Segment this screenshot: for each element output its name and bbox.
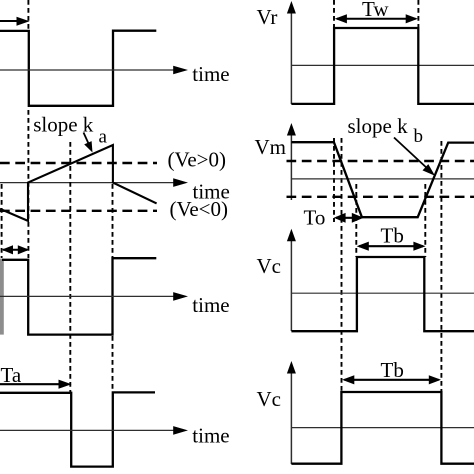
plot R4: Vc delayed pulse bbox=[257, 358, 474, 464]
dashed vertical x=425.3 bbox=[424, 184, 426, 257]
plot R3: Vc comparator pulse bbox=[257, 224, 474, 332]
plot L3: comparator output square wave bbox=[0, 245, 230, 334]
svg-text:b: b bbox=[414, 126, 424, 147]
arrow (period marker) at top of L1 bbox=[0, 20, 17, 23]
svg-text:slope k: slope k bbox=[33, 113, 94, 137]
dashed lower threshold R2 bbox=[287, 196, 474, 198]
svg-text:time: time bbox=[192, 62, 229, 86]
plot L4: delayed output square wave bbox=[0, 363, 230, 467]
axis R3 bbox=[291, 292, 474, 294]
dashed vertical x=112.5 bbox=[112, 184, 114, 392]
double arrow Tb R3 bbox=[359, 245, 423, 247]
trace R1 bbox=[291, 28, 474, 104]
dashed vertical x=334 (Tw left) bbox=[333, 0, 335, 27]
dashed vertical x=341.5 bbox=[341, 138, 343, 392]
dashed vertical x=418.4 (Tw right) bbox=[417, 0, 419, 27]
trace R2 bbox=[291, 142, 474, 217]
svg-text:time: time bbox=[192, 424, 229, 448]
dashed threshold (Ve<0) bbox=[0, 210, 157, 212]
axis L4 bbox=[0, 429, 176, 431]
svg-text:time: time bbox=[192, 293, 229, 317]
vertical axis R2 bbox=[290, 130, 292, 200]
dashed vertical x=334 in R2 bbox=[333, 138, 335, 222]
svg-text:Tb: Tb bbox=[381, 358, 404, 382]
svg-text:a: a bbox=[99, 126, 108, 147]
svg-text:Tb: Tb bbox=[381, 224, 404, 248]
trace L1 bbox=[0, 31, 156, 106]
grey edge bar (cut rising edge) bbox=[0, 259, 4, 335]
axis R2 bbox=[291, 178, 474, 180]
double arrow To-left between x=1.5 and x=28 bbox=[3, 249, 27, 251]
trace L4 bbox=[0, 392, 155, 466]
axis R4 bbox=[291, 427, 474, 429]
trace L3 bbox=[2, 258, 156, 334]
svg-text:Vr: Vr bbox=[257, 5, 278, 29]
vertical axis R3 bbox=[290, 236, 292, 331]
dashed vertical x=28.4 above L1 wave bbox=[27, 0, 29, 29]
svg-text:To: To bbox=[304, 206, 326, 230]
dashed vertical x=1.6 (left cut) bbox=[1, 184, 3, 258]
trace R3 bbox=[291, 257, 474, 331]
svg-text:Vm: Vm bbox=[255, 135, 287, 159]
axis L2 bbox=[0, 182, 176, 184]
dashed vertical x=70.3 bbox=[69, 142, 71, 393]
arrow Ta bbox=[0, 383, 60, 385]
double arrow To bbox=[336, 217, 361, 219]
annotation arrow slope-k left bbox=[84, 133, 89, 144]
svg-text:slope k: slope k bbox=[348, 114, 409, 138]
dashed upper threshold R2 bbox=[287, 160, 474, 162]
plot L1: input square wave bbox=[0, 0, 230, 106]
dashed vertical x=441.4 bbox=[440, 141, 442, 392]
dashed vertical x=356.3 bbox=[355, 184, 357, 257]
axis R1 bbox=[291, 64, 474, 66]
plot R2: Vm modulated trapezoid wave bbox=[255, 114, 474, 392]
dashed vertical x=28.4 mid bbox=[27, 110, 29, 258]
trace L2 ramp bbox=[0, 145, 157, 221]
axis L1 bbox=[0, 69, 176, 71]
annotation arrow slope-k right bbox=[394, 138, 429, 170]
svg-text:(Ve<0): (Ve<0) bbox=[170, 197, 229, 221]
axis L3 bbox=[0, 295, 176, 297]
vertical axis R1 bbox=[290, 8, 292, 104]
double arrow Tb R4 bbox=[345, 379, 439, 381]
plot R1: Vr reference square wave bbox=[257, 0, 474, 104]
svg-text:Vc: Vc bbox=[257, 254, 282, 278]
plot L2: error ramp bbox=[0, 110, 230, 393]
svg-text:Vc: Vc bbox=[257, 387, 282, 411]
trace R4 bbox=[291, 392, 474, 464]
dashed threshold (Ve>0) bbox=[0, 162, 157, 164]
svg-text:(Ve>0): (Ve>0) bbox=[168, 148, 227, 172]
double arrow Tw bbox=[337, 18, 416, 20]
vertical axis R4 bbox=[290, 368, 292, 464]
